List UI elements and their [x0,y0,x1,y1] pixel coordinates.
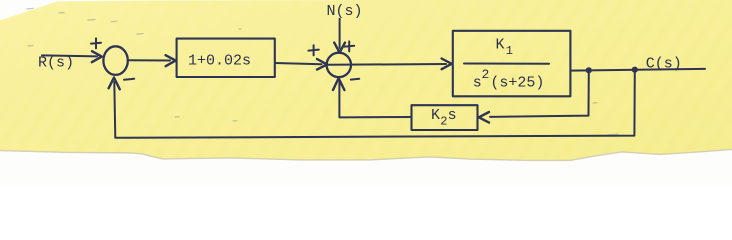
node: pickoff dot 1 [586,67,592,73]
svg-text:(s+25): (s+25) [490,75,544,92]
svg-text:2: 2 [482,67,490,82]
svg-text:C(s): C(s) [646,55,682,72]
plus sign left of S2 [308,45,318,55]
block H (K2s) rectangle [412,105,478,130]
torn edge faint shade [0,149,732,160]
svg-text:1+0.02s: 1+0.02s [188,53,251,70]
svg-text:2: 2 [440,115,447,129]
node: pickoff dot 2 [632,67,638,73]
svg-text:N(s): N(s) [327,3,363,20]
wire: G1 to summing junction S2 [275,63,322,64]
wire: R(s) input to summing junction S1 [42,55,97,56]
white page backdrop [0,0,732,186]
wire: S2 to block G2 [328,63,446,66]
summing junction S2 [327,53,351,77]
svg-text:R(s): R(s) [38,54,74,71]
block G1 (1+0.02s) rectangle [177,39,275,77]
svg-text:s: s [473,75,482,92]
svg-text:K: K [431,107,440,124]
wire: G2 output to C(s) [570,69,705,71]
wire: outer feedback, pickoff2 down, along bottom, up into S1 bottom [114,70,635,138]
fraction bar in G2 [464,63,549,65]
svg-text:K: K [496,36,505,53]
summing junction S1 [103,46,127,75]
minus sign below-right of S2 [351,78,359,81]
wire: inner feedback, pickoff1 down and left into block H (K2s) [490,70,589,117]
plus sign right of N(s) arrow [344,41,354,51]
block G2 (K1/s^2(s+25)) rectangle [453,31,571,97]
wire: S1 to block G1 [128,59,170,61]
yellow paper scrap with torn bottom edge [0,0,732,160]
svg-text:s: s [448,107,457,124]
stray pencil specks [27,8,618,134]
minus sign below-right of S1 [124,79,134,80]
svg-text:1: 1 [506,44,513,58]
plus sign at S1 input [91,38,101,48]
wire: H output left and up into S2 bottom [339,82,411,117]
wire: N(s) drop into S2 [339,19,341,48]
